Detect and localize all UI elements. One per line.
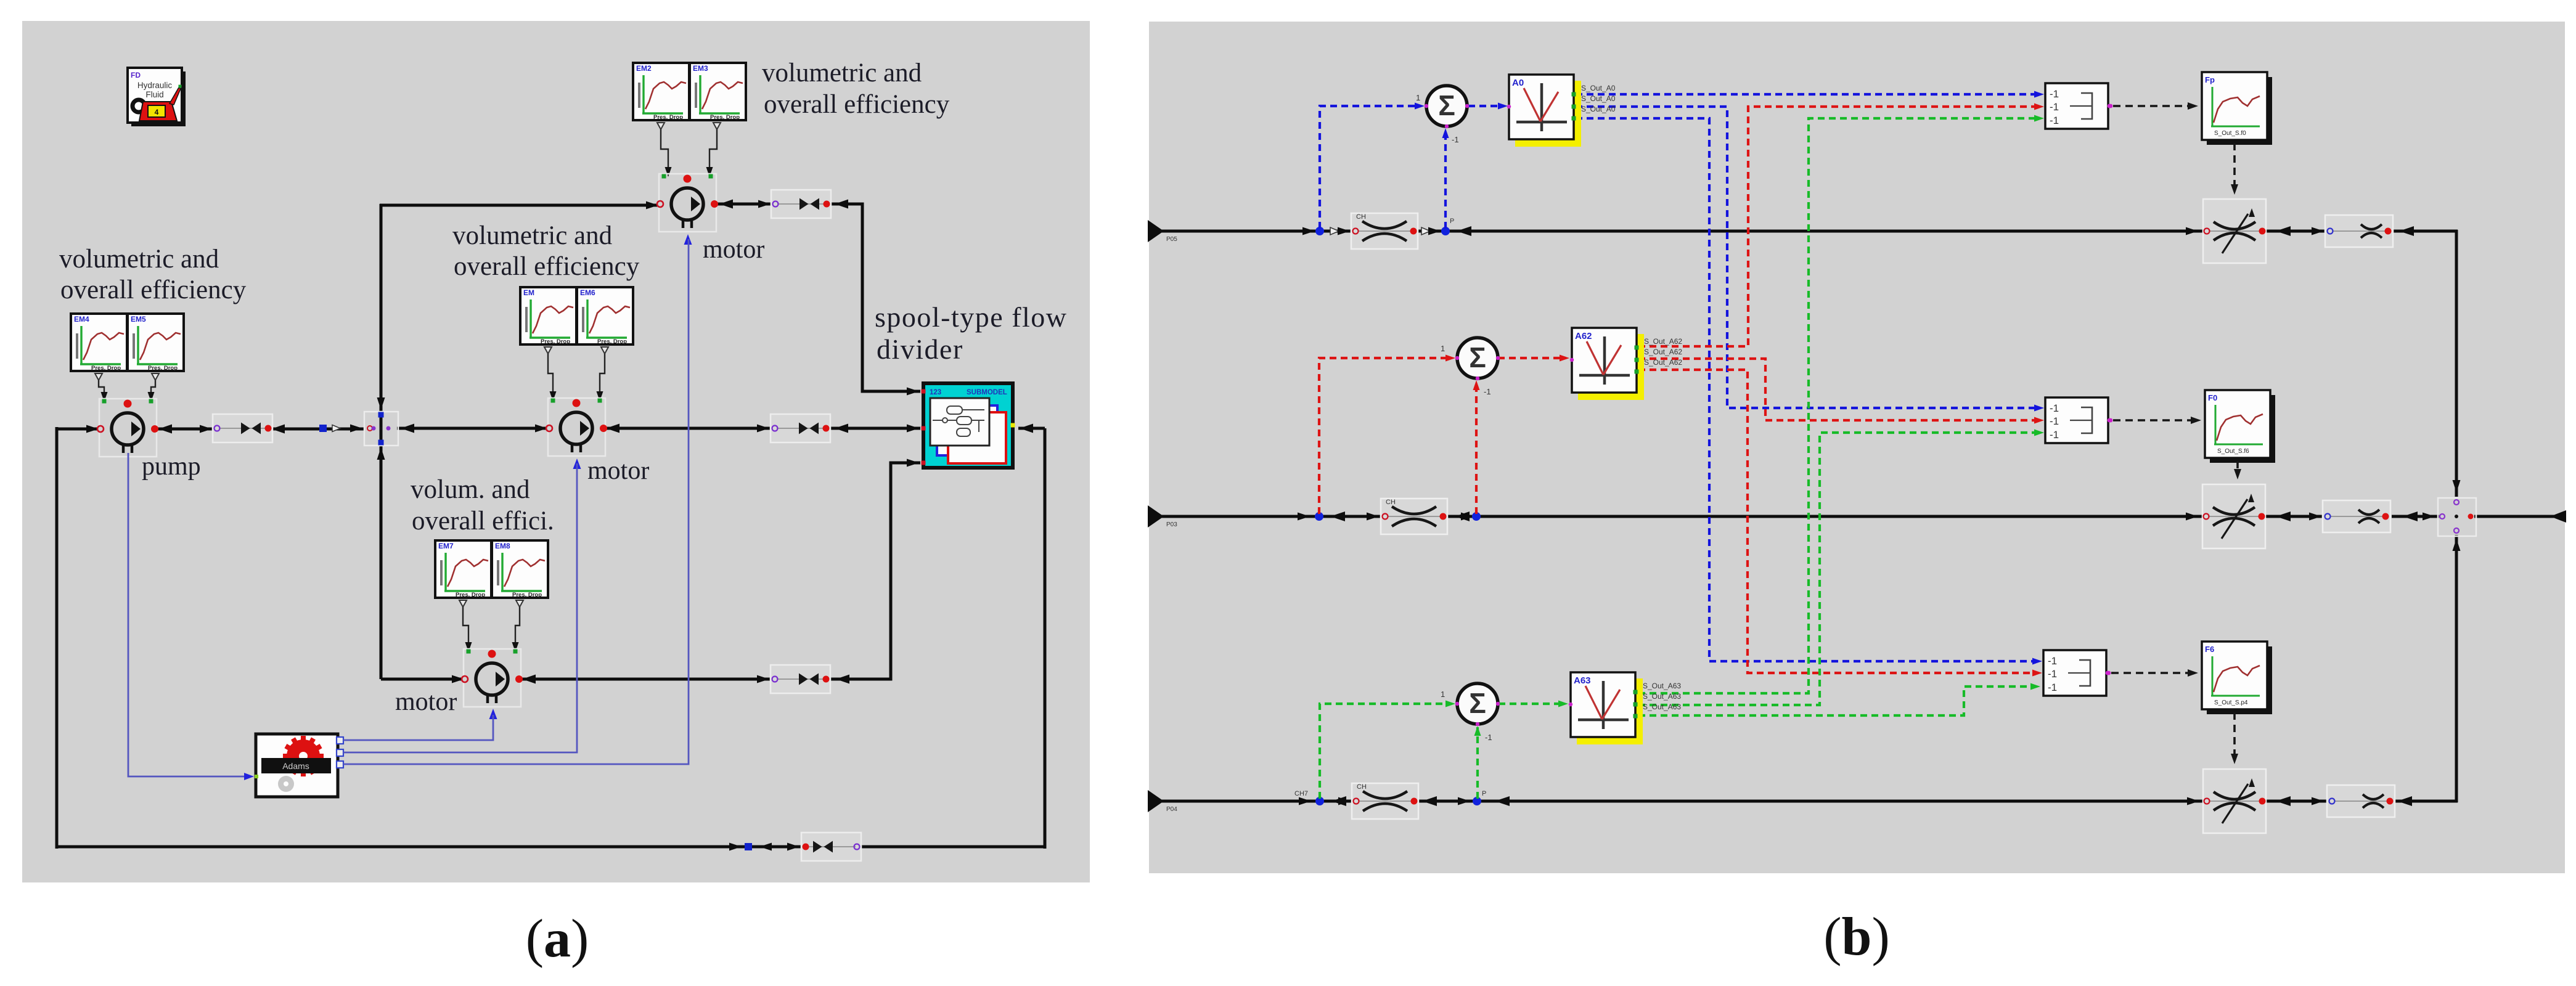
text volumetric and overall efficiency (top motor) (762, 59, 950, 119)
text volumetric and overall efficiency (pump) (59, 245, 247, 304)
wire top orifice to flow divider (829, 200, 920, 396)
signal wire A63 out2 to gain2 input3 (1638, 430, 2044, 706)
svg-text:SUBMODEL: SUBMODEL (967, 389, 1007, 396)
svg-text:-1: -1 (2050, 415, 2059, 427)
svg-text:-1: -1 (2048, 655, 2057, 667)
variable orifice row1 (2203, 199, 2266, 263)
signal wire plot Fp to variable orifice row1 (2231, 143, 2238, 195)
svg-text:EM7: EM7 (438, 542, 454, 550)
signal wire Adams port2 to mid motor (343, 463, 577, 752)
summing junction A63 (1455, 683, 1500, 726)
check valve row1 (1351, 213, 1418, 249)
svg-text:Σ: Σ (1438, 89, 1455, 121)
signal wire A62 out2 to gain2 input2 (1638, 359, 2044, 424)
hydraulic fluid properties icon FD (128, 68, 186, 126)
wire main line row2 (1149, 515, 2565, 518)
panel (b) background (1149, 22, 2565, 873)
svg-text:Σ: Σ (1469, 687, 1486, 719)
svg-text:Pres. Drop: Pres. Drop (597, 338, 627, 345)
orifice return line (801, 833, 861, 861)
wire main line row1 (1149, 230, 2458, 233)
svg-text:-1: -1 (1485, 733, 1492, 742)
check valve row2 (1381, 499, 1447, 534)
label motor (bottom) (395, 688, 457, 716)
svg-text:A0: A0 (1512, 78, 1524, 88)
svg-text:123: 123 (930, 389, 941, 396)
svg-text:1: 1 (1441, 690, 1445, 699)
orifice bottom motor line (771, 665, 830, 693)
port tag P03 (1148, 505, 1177, 528)
caption (b) (1823, 907, 1890, 967)
wire fittings row1 (1302, 226, 2414, 236)
svg-text:EM5: EM5 (131, 315, 146, 324)
orifice row2 right (2323, 500, 2390, 532)
caption (a) (526, 909, 589, 969)
signal wire A62 out1 to gain1 input2 (1638, 104, 2044, 347)
measurement tap bottom motor right (512, 600, 524, 652)
wire row1 drop to junction (2453, 230, 2461, 497)
measurement tap top motor left (657, 123, 672, 177)
svg-text:Hydraulic: Hydraulic (137, 81, 173, 90)
svg-text:-1: -1 (2050, 402, 2059, 414)
orifice mid motor line (771, 414, 830, 442)
wire right vertical to flow divider (1018, 424, 1045, 849)
node junction CH7 row3 (1294, 790, 1324, 805)
svg-text:divider: divider (877, 333, 963, 365)
check valve row3 (1352, 783, 1418, 819)
wire main line row3 (1149, 800, 2458, 803)
signal wire row1 pressure to sum A0 (1320, 93, 1425, 229)
svg-text:motor: motor (587, 457, 649, 485)
signal wire sum A62 to function A62 (1498, 355, 1569, 362)
svg-text:-1: -1 (1484, 387, 1491, 396)
motor mid (546, 398, 607, 456)
svg-text:Pres. Drop: Pres. Drop (653, 114, 683, 121)
motor top (657, 174, 718, 232)
node junction CH row1 (1315, 227, 1324, 235)
svg-text:-1: -1 (2048, 668, 2057, 680)
signal wire A0 out3 to gain3 input1 (1576, 118, 2042, 665)
signal wire pump speed to Adams (128, 453, 254, 780)
variable orifice row2 (2202, 484, 2265, 548)
function block A63 (1569, 672, 1682, 744)
measurement tap mid motor right (597, 347, 609, 401)
wire bottom motor to bottom orifice (518, 675, 772, 684)
svg-text:Pres. Drop: Pres. Drop (541, 338, 570, 345)
signal wire plot F0 to variable orifice row2 (2234, 461, 2241, 479)
svg-text:S_Out_A63: S_Out_A63 (1643, 703, 1681, 711)
gain block mid (2045, 397, 2111, 443)
wire junction to bottom motor (381, 675, 467, 683)
node 4-way junction (364, 412, 398, 446)
signal wire A0 out2 to gain2 input1 (1576, 107, 2044, 412)
svg-text:A62: A62 (1575, 331, 1592, 341)
text spool-type flow divider (875, 301, 1068, 365)
measurement tap pump left (95, 373, 108, 402)
svg-text:motor: motor (703, 235, 764, 264)
plot block Fp (2202, 72, 2272, 145)
svg-text:-1: -1 (2050, 115, 2059, 126)
svg-text:S_Out_S.f6: S_Out_S.f6 (2217, 448, 2249, 455)
svg-text:overall efficiency: overall efficiency (454, 252, 640, 281)
function block A62 (1570, 328, 1683, 400)
svg-text:S_Out_A0: S_Out_A0 (1581, 105, 1616, 113)
wire pump outlet to orifice (155, 425, 215, 434)
variable orifice row3 (2203, 769, 2266, 833)
svg-text:S_Out_S.p4: S_Out_S.p4 (2214, 699, 2248, 706)
signal wire Adams port1 to bottom motor (343, 715, 493, 740)
node junction P2 row2 (1472, 512, 1481, 521)
svg-text:overall efficiency: overall efficiency (60, 275, 247, 304)
signal wire gain3 to plot F6 (2107, 669, 2198, 677)
label pump (142, 452, 201, 481)
svg-text:S_Out_A62: S_Out_A62 (1644, 358, 1682, 367)
svg-text:Σ: Σ (1469, 341, 1486, 373)
svg-text:CH: CH (1386, 499, 1396, 506)
wire top motor to top orifice (716, 200, 773, 209)
plot pair EM/EM6 (mid motor efficiency) (520, 287, 633, 345)
svg-text:-1: -1 (2050, 101, 2059, 113)
orifice pump line (213, 414, 272, 442)
svg-text:volumetric and: volumetric and (762, 59, 922, 88)
signal wire A63 out3 to gain3 input3 (1638, 683, 2040, 716)
svg-text:FD: FD (131, 71, 141, 79)
label motor (mid) (587, 457, 649, 485)
node shaft input bottom motor (489, 709, 497, 719)
wire fittings row3 (1299, 796, 2412, 806)
label motor (top) (703, 235, 764, 264)
svg-text:CH: CH (1356, 213, 1366, 221)
signal wire row2 feedback -1 (1473, 380, 1491, 514)
panel (a) background (22, 21, 1090, 882)
svg-text:overall effici.: overall effici. (412, 507, 554, 536)
wire fittings row2 (1298, 510, 2566, 523)
plot pair EM7/EM8 (bottom motor efficiency) (435, 540, 548, 598)
svg-text:volumetric and: volumetric and (59, 245, 219, 274)
svg-text:CH: CH (1357, 783, 1367, 791)
svg-text:EM4: EM4 (74, 315, 89, 324)
wire pump inlet from left loop (57, 425, 100, 433)
signal wire A62 out3 to gain3 input2 (1638, 370, 2042, 677)
svg-text:F6: F6 (2205, 645, 2214, 654)
svg-text:-1: -1 (2048, 682, 2057, 693)
orifice row1 right (2325, 215, 2393, 247)
signal wire sum A63 to function A63 (1499, 701, 1568, 707)
measurement tap mid motor left (544, 347, 557, 401)
gain block bottom (2043, 650, 2109, 696)
svg-text:(a): (a) (526, 909, 589, 969)
svg-text:P03: P03 (1166, 521, 1177, 528)
wire orifice to junction (268, 425, 372, 434)
svg-text:P: P (1482, 790, 1486, 797)
svg-text:Pres. Drop: Pres. Drop (456, 592, 485, 598)
signal wire row3 feedback -1 (1474, 726, 1492, 799)
node junction P row1 (1441, 218, 1454, 235)
signal wire row1 feedback -1 (1442, 128, 1459, 229)
svg-text:1: 1 (1441, 344, 1445, 353)
svg-text:EM2: EM2 (636, 64, 652, 73)
svg-text:S_Out_A63: S_Out_A63 (1643, 692, 1681, 701)
wire bottom orifice to flow divider (830, 459, 920, 684)
svg-text:EM: EM (523, 288, 534, 297)
text volumetric and overall efficiency (mid motor) (452, 221, 640, 281)
signal wire gain1 to plot Fp (2109, 102, 2198, 110)
wire row3 rise to junction (2453, 535, 2461, 802)
svg-text:Adams: Adams (282, 761, 309, 771)
svg-text:volum. and: volum. and (411, 475, 530, 504)
signal wire row3 pressure to sum A63 (1320, 690, 1455, 799)
summing junction A0 (1425, 86, 1469, 128)
orifice row3 right (2327, 785, 2395, 817)
plot block F6 (2202, 642, 2272, 714)
plot pair EM4/EM5 (pump efficiency) (71, 314, 184, 372)
signal wire plot F6 to variable orifice row3 (2231, 712, 2238, 764)
svg-text:4: 4 (155, 108, 159, 116)
svg-text:Fluid: Fluid (145, 90, 163, 99)
svg-text:volumetric and: volumetric and (452, 221, 612, 250)
wire mid motor to mid orifice (602, 424, 772, 433)
summing junction A62 (1455, 338, 1500, 380)
plot block F0 (2205, 390, 2275, 463)
svg-text:CH7: CH7 (1294, 790, 1308, 797)
svg-text:P05: P05 (1166, 236, 1177, 243)
svg-text:S_Out_S.f0: S_Out_S.f0 (2214, 130, 2246, 137)
co-simulation block Adams (255, 734, 343, 797)
text volum. and overall effici. (bottom motor) (411, 475, 554, 536)
signal wire Adams port3 to top motor (343, 239, 689, 764)
plot pair EM2/EM3 (top motor efficiency) (633, 63, 746, 121)
svg-text:Pres. Drop: Pres. Drop (512, 592, 542, 598)
svg-text:S_Out_A0: S_Out_A0 (1581, 84, 1616, 92)
signal wire row2 pressure to sum A62 (1319, 344, 1455, 514)
svg-text:EM6: EM6 (580, 288, 595, 297)
svg-text:P04: P04 (1166, 806, 1177, 813)
subsystem block spool-type flow divider (922, 383, 1015, 468)
wire junction to mid motor (397, 424, 550, 433)
measurement tap top motor right (706, 123, 721, 177)
gain block top (2045, 83, 2111, 129)
svg-text:-1: -1 (2050, 429, 2059, 441)
svg-text:EM8: EM8 (495, 542, 510, 550)
wire top branch horizontal (380, 202, 661, 210)
wire bottom return line (55, 843, 1045, 851)
svg-text:-1: -1 (1452, 135, 1459, 144)
node junction P row3 (1473, 790, 1486, 805)
signal wire A0 out1 to gain1 input1 (1576, 91, 2044, 98)
node shaft input top motor (684, 234, 692, 245)
svg-text:Pres. Drop: Pres. Drop (710, 114, 740, 121)
signal wire A63 out1 to gain1 input3 (1638, 115, 2044, 694)
svg-text:S_Out_A62: S_Out_A62 (1644, 348, 1682, 356)
svg-text:spool-type flow: spool-type flow (875, 301, 1068, 333)
signal wire sum A0 to function A0 (1468, 103, 1508, 110)
svg-text:S_Out_A63: S_Out_A63 (1643, 682, 1681, 690)
svg-text:(b): (b) (1823, 907, 1890, 967)
svg-text:overall efficiency: overall efficiency (764, 90, 950, 119)
svg-text:S_Out_A62: S_Out_A62 (1644, 337, 1682, 346)
port tag P05 (1148, 220, 1177, 243)
svg-text:-1: -1 (2050, 88, 2059, 100)
signal wire gain2 to plot F0 (2109, 417, 2201, 424)
wire mid orifice to flow divider (829, 424, 920, 433)
svg-text:motor: motor (395, 688, 457, 716)
svg-text:A63: A63 (1574, 675, 1591, 686)
svg-text:1: 1 (1416, 93, 1420, 102)
wire junction vertical branch (377, 204, 385, 679)
svg-text:P: P (1450, 218, 1454, 225)
node 4-way junction right (2438, 498, 2476, 536)
svg-text:Pres. Drop: Pres. Drop (91, 365, 121, 372)
node junction row2 left (1315, 512, 1323, 521)
function block A0 (1507, 75, 1616, 147)
measurement tap pump right (148, 373, 160, 402)
port tag P04 (1148, 790, 1177, 813)
svg-text:F0: F0 (2208, 393, 2217, 402)
svg-text:EM3: EM3 (693, 64, 708, 73)
measurement tap bottom motor left (459, 600, 472, 652)
pump pump (97, 399, 158, 457)
wire left vertical of main loop (55, 427, 59, 849)
node shaft input mid motor (573, 458, 581, 469)
svg-text:Fp: Fp (2205, 75, 2215, 84)
orifice top motor line (771, 190, 831, 218)
svg-text:Pres. Drop: Pres. Drop (148, 365, 178, 372)
motor bottom (462, 649, 523, 707)
svg-text:S_Out_A0: S_Out_A0 (1581, 94, 1616, 103)
